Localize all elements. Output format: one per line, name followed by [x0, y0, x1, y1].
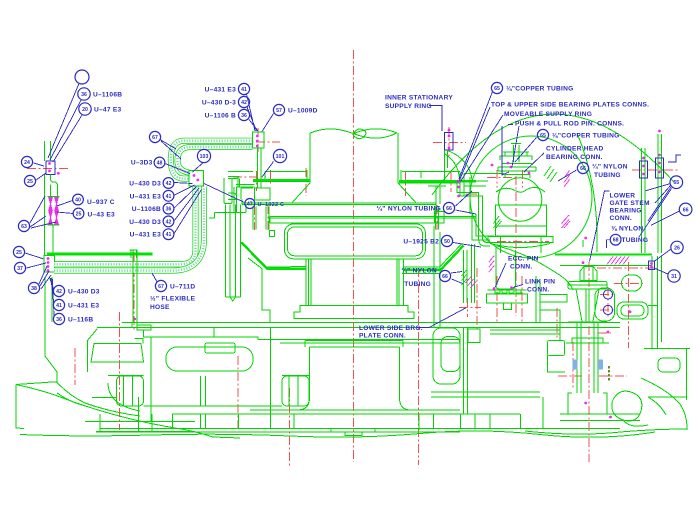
svg-text:38: 38: [31, 286, 37, 292]
balloon 41 c: [130, 190, 174, 201]
svg-text:U–431 E3: U–431 E3: [68, 303, 99, 310]
centerline x418: [418, 268, 420, 465]
shaft break line: [310, 129, 353, 134]
red cross supply ring: [433, 142, 466, 144]
svg-text:66: 66: [442, 274, 448, 280]
svg-text:U–116B: U–116B: [68, 317, 93, 324]
centerline flange bolt right: [436, 205, 438, 232]
red cross mid connector: [233, 176, 266, 178]
balloon 42 d: [129, 216, 174, 227]
leader push-pull: [502, 125, 519, 176]
svg-text:65: 65: [494, 86, 500, 92]
leader cyl head: [524, 153, 544, 172]
balloon 42 b: [202, 96, 250, 107]
rounded slot left: [166, 347, 253, 371]
leader 63: [30, 196, 56, 228]
svg-text:TOP & UPPER SIDE BEARING PLATE: TOP & UPPER SIDE BEARING PLATES CONNS.: [491, 102, 649, 109]
label top upper: [491, 102, 649, 109]
head cover bright band: [253, 179, 310, 181]
svg-text:¼” NYLON: ¼” NYLON: [592, 163, 628, 171]
leader lower gate stem: [590, 191, 610, 262]
svg-text:HOSE: HOSE: [150, 304, 170, 311]
ring inner wall: [436, 186, 440, 204]
red cross brg plate: [459, 298, 481, 317]
link boss: [622, 275, 642, 291]
balloon 66 a: [577, 162, 627, 179]
cylinder body: [496, 205, 547, 236]
svg-text:47: 47: [247, 202, 253, 208]
leader 48: [165, 164, 190, 174]
svg-text:66: 66: [446, 206, 452, 212]
bearing plate thick line: [47, 243, 652, 270]
balloon 41 a: [53, 299, 99, 310]
svg-text:25: 25: [27, 179, 33, 185]
leader 40/25: [57, 201, 73, 214]
left hose connector dots: [47, 257, 50, 272]
centerline x134: [133, 252, 135, 330]
svg-text:MOVEABLE SUPPLY RING: MOVEABLE SUPPLY RING: [504, 111, 592, 118]
balloon 31: [668, 270, 680, 282]
leader 66 far: [651, 211, 680, 225]
balloon 24: [21, 156, 32, 167]
red cross right tubes: [632, 169, 678, 171]
left valve caps: [48, 197, 60, 226]
leader moveable: [461, 115, 504, 182]
svg-text:LOWER: LOWER: [610, 193, 636, 200]
svg-text:36: 36: [166, 207, 172, 213]
centerline cyl plate: [497, 240, 549, 242]
leader top mid balloons: [247, 94, 259, 131]
supply ring left steps: [228, 176, 253, 199]
red bolt tick x270: [270, 170, 272, 186]
shaft break lens: [353, 129, 396, 138]
stem top tick: [583, 237, 587, 247]
leader 66 low fan: [451, 272, 463, 284]
svg-text:CYLINDER HEAD: CYLINDER HEAD: [546, 146, 603, 153]
leader 103: [193, 163, 204, 172]
leader 47: [204, 184, 244, 203]
svg-text:67: 67: [152, 135, 158, 141]
red cross left connector: [27, 167, 70, 169]
svg-text:U–937 C: U–937 C: [87, 199, 115, 206]
balloon 26: [671, 241, 683, 253]
svg-text:INNER STATIONARY: INNER STATIONARY: [385, 95, 453, 102]
flange flare: [292, 183, 416, 203]
wing inner: [57, 383, 140, 411]
right bracket blue: [668, 155, 681, 162]
link dot: [510, 286, 513, 289]
column steps: [306, 259, 404, 306]
head cover top right: [399, 171, 460, 183]
svg-text:BEARING: BEARING: [610, 208, 642, 215]
leader 101: [262, 162, 274, 178]
gate col right: [652, 256, 662, 349]
pocket shape: [224, 178, 232, 204]
svg-text:TUBING: TUBING: [622, 237, 649, 244]
centerline link pin: [628, 262, 630, 348]
hatch green low: [494, 216, 502, 228]
label moveable: [504, 111, 592, 118]
svg-text:41: 41: [241, 87, 247, 93]
svg-text:U–1022 C: U–1022 C: [258, 202, 285, 208]
right wing outline: [525, 378, 687, 434]
leader 66 right: [558, 170, 577, 181]
svg-text:36: 36: [81, 92, 87, 98]
svg-text:36: 36: [241, 113, 247, 119]
svg-text:SUPPLY RING: SUPPLY RING: [385, 103, 432, 110]
svg-text:BEARING CONN.: BEARING CONN.: [546, 154, 603, 161]
left pipe mid: [45, 175, 58, 257]
flange bolt ticks: [307, 170, 401, 180]
left bowtie valves: [49, 198, 59, 225]
balloon 25 c: [13, 246, 24, 257]
svg-text:U–431 E3: U–431 E3: [205, 87, 236, 94]
label flexible hose: [150, 295, 196, 312]
supply ring dots: [448, 129, 451, 150]
hub block inner: [288, 227, 423, 256]
leader label column: [174, 183, 202, 234]
column foot: [294, 306, 414, 319]
top connector dots: [256, 135, 259, 148]
label ecc pin: [508, 256, 539, 271]
pipe tee fitting: [130, 250, 138, 258]
cap dots: [457, 162, 531, 184]
svg-text:65: 65: [673, 180, 679, 186]
svg-text:LOWER SIDE BRG.: LOWER SIDE BRG.: [359, 325, 423, 332]
balloon 48: [131, 157, 165, 168]
ecc cup: [496, 246, 515, 290]
svg-text:42: 42: [166, 219, 172, 225]
svg-text:PUSH & PULL ROD PIN. CONNS.: PUSH & PULL ROD PIN. CONNS.: [515, 121, 624, 128]
svg-text:⅛”COPPER TUBING: ⅛”COPPER TUBING: [552, 133, 620, 140]
svg-text:U–431 E3: U–431 E3: [130, 193, 161, 200]
left band pad: [270, 231, 275, 237]
leader 42/41/36 left: [50, 277, 55, 316]
cylinder head circle: [498, 178, 542, 222]
balloon 42 a: [53, 285, 99, 296]
centerline supply conn vert: [448, 127, 450, 156]
svg-text:37: 37: [17, 266, 23, 272]
svg-text:24: 24: [24, 160, 30, 166]
red cross bearing conn: [437, 172, 475, 192]
svg-text:25: 25: [76, 212, 82, 218]
balloon 101: [273, 149, 286, 162]
right tube 1: [642, 148, 646, 253]
rail under thick: [560, 265, 652, 267]
base band dividers: [173, 414, 544, 429]
leader 50: [453, 243, 481, 248]
svg-text:41: 41: [166, 194, 172, 200]
leader 57: [262, 114, 274, 132]
svg-text:U–1009D: U–1009D: [288, 108, 318, 115]
svg-text:42: 42: [56, 289, 62, 295]
svg-text:25: 25: [16, 250, 22, 256]
link block: [595, 288, 615, 321]
cyan seals: [573, 360, 603, 369]
balloon 25 b: [73, 208, 115, 219]
right blue connector: [649, 261, 655, 270]
red bolt crosses: [600, 287, 616, 318]
svg-text:CONN.: CONN.: [610, 215, 633, 222]
base band: [96, 410, 620, 432]
balloon 40: [73, 194, 115, 206]
leader ecc pin: [495, 263, 506, 288]
svg-text:U–430 D-3: U–430 D-3: [202, 100, 236, 107]
red cross link boss: [614, 283, 643, 285]
moveable ring lines: [462, 181, 494, 240]
cyl base plate: [488, 237, 553, 243]
centerline gate stem: [588, 262, 590, 462]
band bolt ticks: [253, 207, 444, 230]
svg-text:⅛”COPPER TUBING: ⅛”COPPER TUBING: [506, 86, 574, 93]
head cover bottom left: [262, 269, 270, 323]
svg-text:48: 48: [157, 161, 163, 167]
moveable ring big arc: [432, 114, 674, 195]
stem base: [560, 393, 640, 421]
red cross bearing conn upper: [487, 177, 519, 179]
hatch right of cyl: [544, 166, 557, 182]
left bracket edge: [87, 329, 97, 373]
link bolts: [603, 290, 612, 315]
red tick elbow: [468, 193, 478, 195]
svg-text:LINK PIN: LINK PIN: [525, 279, 555, 286]
right tube dots: [642, 130, 661, 176]
label lower side brg: [359, 325, 423, 340]
hatch mag2: [562, 215, 571, 228]
centerline x119: [119, 312, 121, 430]
pipe end block: [132, 323, 152, 338]
gate profile: [540, 295, 567, 323]
red tick stem mid: [598, 332, 611, 334]
svg-text:U–711D: U–711D: [170, 284, 195, 291]
leader 31: [655, 269, 668, 275]
label 3/8 nylon: [607, 226, 649, 249]
centerline x306 head: [305, 168, 307, 196]
centerline x238: [237, 356, 239, 432]
leader 25a: [36, 173, 46, 180]
right slots block: [282, 376, 310, 406]
leader 67 top: [160, 140, 181, 160]
pedestal sides: [294, 347, 417, 410]
pipe elbow box: [234, 185, 270, 213]
svg-text:U–47 E3: U–47 E3: [94, 107, 121, 114]
left pipe bottom conn: [134, 318, 136, 320]
centerline cylinder: [515, 176, 517, 316]
hatch mag cup: [489, 256, 495, 273]
cylinder inner: [496, 226, 547, 253]
balloon 50: [403, 235, 452, 246]
svg-text:42: 42: [166, 181, 172, 187]
svg-text:PLATE CONN.: PLATE CONN.: [359, 333, 406, 340]
pedestal cap: [305, 341, 403, 347]
svg-text:40: 40: [75, 198, 81, 204]
leader 38: [39, 266, 51, 289]
leader 67 bottom: [152, 273, 157, 282]
centerline flange bolts left: [255, 205, 269, 232]
svg-text:103: 103: [200, 154, 209, 160]
svg-text:26: 26: [674, 245, 680, 251]
red tick stem top: [597, 267, 658, 269]
centerline x405 head: [405, 172, 407, 196]
balloon 65 a: [491, 82, 573, 93]
comb plate: [488, 290, 527, 293]
left outline lower: [45, 277, 57, 382]
svg-text:CONN.: CONN.: [527, 287, 550, 294]
svg-text:57: 57: [276, 108, 282, 114]
big circle: [470, 136, 592, 258]
leader top-upper: [460, 107, 491, 181]
head cover left steps: [209, 205, 246, 218]
hatch green cup: [462, 270, 467, 285]
right under plates: [490, 276, 560, 341]
svg-text:36: 36: [56, 317, 62, 323]
head cover top left: [228, 171, 310, 181]
leader 66 mid: [456, 191, 477, 214]
lower column: [309, 259, 400, 306]
balloon 36 b: [53, 313, 93, 324]
leader 65 top: [459, 92, 493, 180]
svg-text:101: 101: [276, 154, 285, 160]
svg-text:U–3D3: U–3D3: [131, 160, 153, 167]
balloon 37: [14, 262, 25, 273]
left small pipes vert: [133, 250, 137, 323]
right tube 2: [658, 134, 662, 253]
balloon 20: [79, 103, 122, 115]
leader 65 second: [515, 138, 537, 163]
supply ring structs: [428, 180, 491, 246]
left parallelogram: [91, 339, 144, 363]
top connector block: [253, 132, 265, 148]
mid connector block: [189, 171, 204, 187]
shaft break loop: [353, 129, 366, 139]
wing outline: [16, 372, 240, 438]
svg-text:31: 31: [671, 274, 677, 280]
head cover bottom plates: [97, 323, 620, 328]
base bottom wavy: [20, 431, 655, 437]
stem collar: [566, 322, 609, 343]
label inner stationary: [385, 95, 453, 111]
svg-text:U–1925 B2: U–1925 B2: [403, 239, 439, 246]
balloon 66 d: [679, 203, 692, 216]
bearing plate block: [487, 294, 528, 310]
hatch above thick: [607, 257, 629, 265]
centerline x557: [556, 308, 558, 341]
balloon 41 d: [130, 229, 174, 240]
balloon 67 b: [155, 280, 195, 291]
svg-text:68: 68: [613, 238, 619, 244]
stem taper: [576, 289, 599, 322]
hose upper C2: [178, 147, 253, 173]
svg-text:U–430 D3: U–430 D3: [68, 289, 100, 296]
balloon 66 c: [401, 267, 450, 289]
servo col verticals: [464, 328, 468, 414]
thick line companions: [240, 242, 462, 274]
label push pull: [515, 121, 624, 128]
right slot lines: [419, 329, 543, 430]
label cyl head: [546, 146, 603, 162]
mid plates: [258, 340, 460, 344]
centerline main vertical: [353, 50, 355, 462]
leader link pin: [513, 285, 523, 288]
svg-text:67: 67: [158, 284, 164, 290]
head cover diag: [248, 258, 262, 269]
svg-text:63: 63: [21, 224, 27, 230]
gate stem hex nut: [580, 267, 597, 281]
balloon 65 b: [537, 129, 619, 140]
svg-text:⅜ NYLON: ⅜ NYLON: [611, 226, 643, 233]
mid structures: [205, 328, 258, 354]
leader inner stationary: [429, 106, 442, 132]
right servo arc: [577, 133, 597, 252]
flange band1: [242, 200, 436, 217]
svg-text:U–43 E3: U–43 E3: [88, 211, 115, 218]
balloon 36 c: [205, 109, 250, 120]
right wing blob: [612, 391, 648, 426]
supply ring petal arcs: [445, 151, 472, 181]
centerline x289: [289, 388, 291, 468]
cyl bottom arc: [497, 246, 573, 290]
svg-text:66: 66: [683, 207, 689, 213]
centerline bolt left head: [256, 171, 258, 191]
svg-text:½” FLEXIBLE: ½” FLEXIBLE: [150, 295, 196, 303]
supply ring connector: [445, 133, 454, 151]
leader lower side brg: [417, 308, 466, 328]
hatch mag1: [564, 171, 570, 188]
svg-text:50: 50: [444, 239, 450, 245]
red ticks stem base: [558, 375, 627, 377]
bearing wave: [496, 187, 545, 192]
hub block: [284, 224, 425, 259]
piston rod: [511, 144, 521, 163]
leader 37: [27, 263, 47, 268]
svg-text:ECC. PIN: ECC. PIN: [508, 256, 539, 263]
right lower casing: [644, 349, 690, 401]
hatch mag wall: [466, 277, 477, 289]
link plates: [617, 302, 657, 319]
centerline x573: [572, 342, 574, 390]
shaft sides: [310, 133, 398, 183]
svg-text:U–430 D3: U–430 D3: [129, 219, 161, 226]
stem washer: [568, 282, 607, 290]
svg-text:42: 42: [241, 100, 247, 106]
stem base dots: [582, 261, 632, 418]
svg-text:65: 65: [540, 133, 546, 139]
svg-text:41: 41: [166, 232, 172, 238]
balloon 103: [197, 149, 210, 162]
supply ring pipe: [445, 150, 448, 180]
leader 26: [654, 249, 671, 262]
centerline cyl bolts: [497, 170, 523, 322]
balloon 66 b: [376, 202, 454, 213]
svg-text:20: 20: [82, 107, 88, 113]
svg-text:U–1106B: U–1106B: [93, 92, 122, 99]
left verticals low: [138, 337, 210, 422]
balloon 57: [273, 104, 317, 115]
ecc dot: [493, 287, 496, 290]
mid connector dots: [193, 174, 200, 181]
svg-text:66: 66: [580, 166, 586, 172]
leader 25b: [25, 253, 44, 259]
leader top-left circle: [48, 84, 82, 163]
cyl lower struct: [434, 226, 440, 328]
centerline x477: [476, 268, 478, 330]
left hose connector: [44, 256, 55, 273]
head cover bright band right: [399, 180, 476, 182]
base notch: [331, 429, 375, 436]
left pipe lower: [52, 225, 54, 256]
balloon 63: [18, 220, 29, 231]
nylon pipes down: [464, 244, 475, 303]
